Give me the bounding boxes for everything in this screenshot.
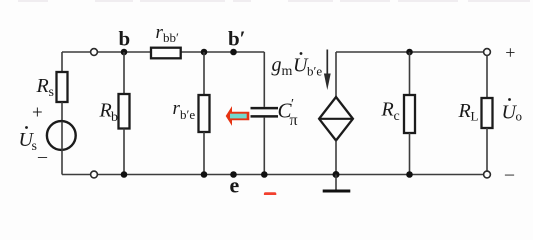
svg-text:b: b — [111, 110, 118, 125]
svg-text:R: R — [458, 100, 471, 122]
wire top rail right segment — [336, 51, 484, 53]
svg-text:′: ′ — [291, 97, 294, 112]
node r_b'e bottom — [201, 171, 208, 178]
wire controlled source branch upper — [335, 52, 337, 97]
node b' — [230, 49, 237, 56]
node Rb bottom — [121, 171, 128, 178]
wire top rail left segment — [62, 51, 151, 53]
source Us circle — [47, 121, 76, 150]
resistor r_bb' — [151, 48, 181, 59]
svg-text:π: π — [290, 112, 298, 129]
terminal circle top right — [484, 49, 491, 56]
svg-text:R: R — [381, 99, 394, 121]
svg-text:b′e: b′e — [307, 64, 322, 79]
svg-text:o: o — [516, 109, 523, 124]
node Rc top — [406, 49, 413, 56]
svg-text:m: m — [282, 64, 293, 79]
wire Rb branch lower — [123, 129, 125, 175]
terminal circle bottom right — [484, 171, 491, 178]
red marker cut at bottom edge — [264, 192, 276, 196]
wire bottom rail — [62, 174, 484, 176]
svg-text:s: s — [32, 139, 37, 154]
wire C-pi branch upper (corner from top rail) — [263, 52, 265, 107]
resistor RL — [482, 98, 493, 128]
resistor Rs — [57, 72, 68, 102]
node r_b'e top — [201, 49, 208, 56]
svg-text:e: e — [230, 172, 240, 195]
svg-text:c: c — [394, 109, 400, 124]
current direction arrow of controlled source — [326, 50, 328, 78]
svg-text:–: – — [504, 163, 515, 183]
svg-text:g: g — [272, 54, 282, 76]
wire top rail mid segment (r_bb' to C-pi corner) — [181, 51, 265, 53]
capacitor C'pi top plate — [251, 107, 279, 110]
resistor Rc — [404, 95, 415, 133]
wire C-pi branch lower — [263, 118, 265, 175]
resistor Rb — [119, 94, 130, 129]
svg-text:b: b — [119, 27, 131, 51]
wire Rc branch upper — [409, 52, 411, 95]
wire through source — [61, 122, 63, 175]
wire r_b'e branch lower — [203, 132, 205, 175]
capacitor C'pi bottom plate — [251, 115, 279, 118]
svg-text:b′e: b′e — [180, 107, 195, 122]
svg-text:–: – — [37, 146, 48, 166]
wire Rs to source — [61, 102, 63, 122]
wire RL branch lower — [486, 128, 488, 171]
wire source branch upper — [61, 52, 63, 72]
svg-text:L: L — [471, 109, 479, 124]
svg-text:+: + — [505, 43, 515, 63]
node Rc bottom — [406, 171, 413, 178]
red arrow at C'pi — [226, 106, 250, 126]
node b — [121, 49, 128, 56]
svg-text:s: s — [49, 85, 54, 100]
wire RL branch upper — [486, 55, 488, 98]
wire Rb branch upper — [123, 52, 125, 94]
controlled current source diamond — [319, 97, 353, 141]
wire controlled source branch lower — [335, 141, 337, 175]
wire Rc branch lower — [409, 133, 411, 175]
node ground junction — [333, 171, 340, 178]
wire r_b'e branch upper — [203, 52, 205, 95]
cropped text remnant at top edge — [18, 0, 530, 2]
terminal circle bottom left — [91, 171, 98, 178]
svg-text:b′: b′ — [228, 27, 246, 51]
svg-text:R: R — [36, 75, 49, 97]
node e — [230, 171, 237, 178]
terminal circle top left — [91, 49, 98, 56]
node C-pi bottom — [261, 171, 268, 178]
svg-text:+: + — [32, 103, 43, 124]
resistor r_b'e — [199, 95, 210, 132]
diamond chord — [319, 118, 353, 120]
ground — [335, 175, 337, 190]
svg-text:bb′: bb′ — [163, 30, 179, 45]
svg-text:R: R — [99, 100, 112, 122]
